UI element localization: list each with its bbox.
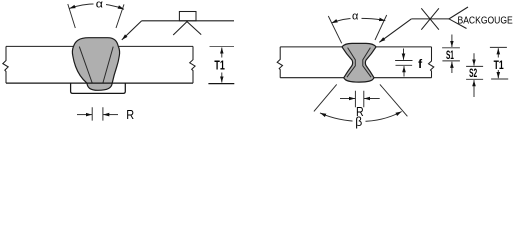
- svg-text:β: β: [355, 115, 362, 129]
- svg-text:S2: S2: [469, 66, 477, 80]
- svg-text:S1: S1: [446, 48, 454, 62]
- svg-text:BACKGOUGE: BACKGOUGE: [458, 15, 514, 26]
- svg-text:T1: T1: [214, 58, 224, 73]
- svg-text:T1: T1: [494, 58, 504, 72]
- svg-text:α: α: [96, 0, 104, 10]
- svg-text:R: R: [126, 107, 134, 122]
- svg-text:α: α: [352, 10, 359, 22]
